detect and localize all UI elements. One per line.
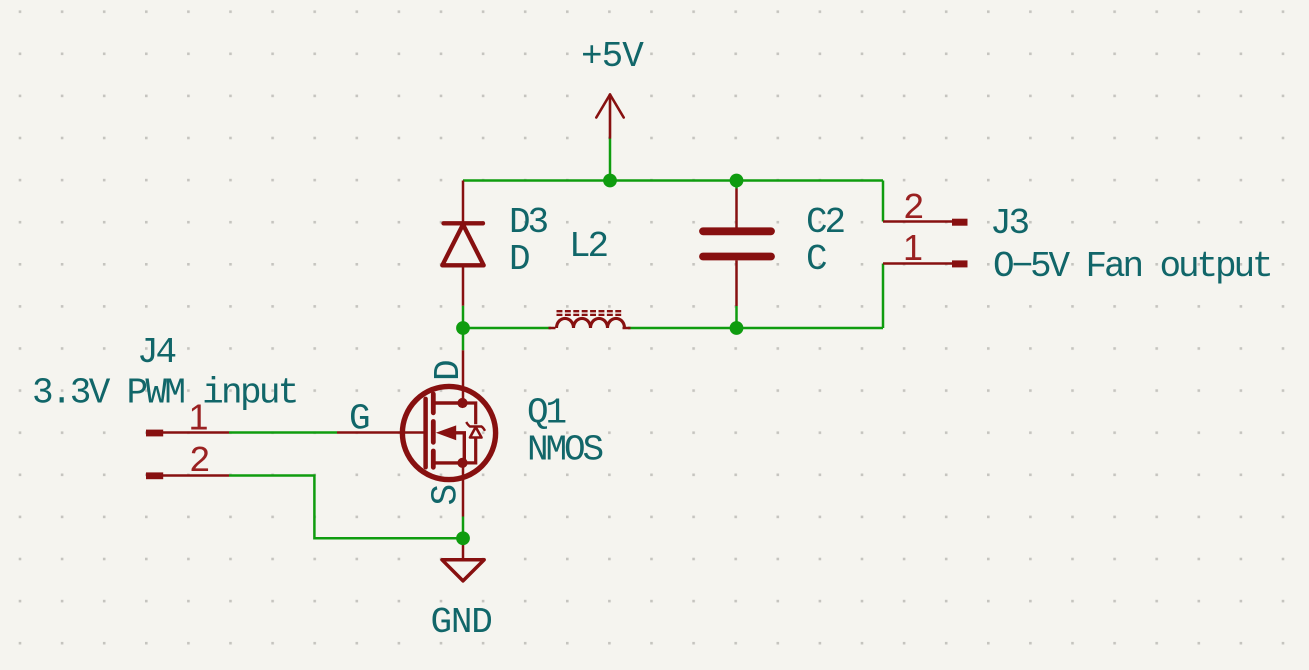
junction at +5V node [603,174,617,188]
ground symbol lead [462,538,465,559]
connector J4 pin 2 end pad [146,472,163,479]
power symbol +5V arrow [596,95,623,138]
wire gate from J4 pin 1 [229,431,337,434]
junction at C2 bottom node [730,321,744,335]
transistor Q1 drain pin lead [462,350,465,403]
transistor Q1 bulk link [456,433,465,463]
wire from J4 pin 2 to ground net [229,476,463,539]
transistor Q1 body diode triangle [470,427,482,438]
wire right vertical top to J3 pin 2 [882,181,885,222]
transistor Q1 body circle [402,386,495,479]
svg-text:O−5V Fan output: O−5V Fan output [993,246,1271,287]
svg-text:+5V: +5V [581,36,644,77]
connector J3 pin 1 lead [883,262,952,265]
connector J3 pin 2 end pad [952,219,968,226]
connector J4 pin 2 lead [162,474,229,477]
junction at D3 bottom node [456,321,470,335]
diode D3 bottom pin [462,265,465,306]
svg-text:J4: J4 [137,332,176,373]
svg-text:D3: D3 [509,202,548,243]
svg-text:2: 2 [903,188,923,229]
svg-text:G: G [349,399,369,440]
inductor L2 body [549,318,631,328]
svg-text:J3: J3 [990,203,1029,244]
svg-text:3.3V PWM input: 3.3V PWM input [32,373,297,414]
connector J3 pin 2 lead [883,220,952,223]
svg-text:1: 1 [903,227,923,268]
wire bottom horizontal right of L2 [628,327,883,330]
svg-text:D: D [428,361,469,381]
capacitor C2 top plate [703,227,771,235]
wire right vertical bottom to J3 pin 1 [882,264,885,329]
capacitor C2 bottom pin [735,260,738,306]
transistor Q1 drain junction dot [457,398,467,408]
diode D3 top pin [462,181,465,224]
svg-text:2: 2 [189,441,209,482]
wire diode bottom stub [462,306,465,328]
inductor L2 core dashes [557,311,624,315]
wire +5V stub [609,138,612,181]
capacitor C2 bottom plate [703,253,771,261]
svg-text:S: S [426,486,467,506]
capacitor C2 top pin [735,189,738,228]
transistor Q1 body diode rail [463,403,476,424]
transistor Q1 drain internal link [433,401,463,404]
junction at ground node [456,531,470,545]
diode D3 triangle [442,225,483,266]
svg-text:C: C [806,239,827,280]
transistor Q1 body diode cathode bar [466,422,485,431]
connector J4 pin 1 lead [162,431,229,434]
capacitor C2 bottom wire stub [735,306,738,328]
svg-text:1: 1 [189,397,209,438]
svg-text:Q1: Q1 [527,393,566,434]
wire drain from node to Q1 [462,328,465,350]
wire top horizontal from D3 to J3 [463,179,883,182]
wire source to ground junction [462,517,465,539]
svg-text:D: D [509,239,529,280]
ground symbol triangle [442,560,484,581]
transistor Q1 channel bars [431,394,436,467]
connector J4 pin 1 end pad [146,430,163,437]
diode D3 cathode bar [444,221,484,225]
svg-text:GND: GND [431,602,492,643]
transistor Q1 source internal link [433,461,463,464]
wire bottom horizontal left of L2 [463,327,551,330]
transistor Q1 source pin lead [462,463,465,517]
svg-text:L2: L2 [569,226,608,267]
transistor Q1 gate bar [423,399,428,467]
svg-text:NMOS: NMOS [527,430,603,471]
transistor Q1 bulk arrow [436,425,456,440]
transistor Q1 source junction dot [457,458,467,468]
transistor Q1 gate pin lead [337,431,426,434]
connector J3 pin 1 end pad [952,260,968,267]
capacitor C2 top wire stub [735,181,738,189]
junction at C2 top node [730,174,744,188]
svg-text:C2: C2 [806,202,845,243]
